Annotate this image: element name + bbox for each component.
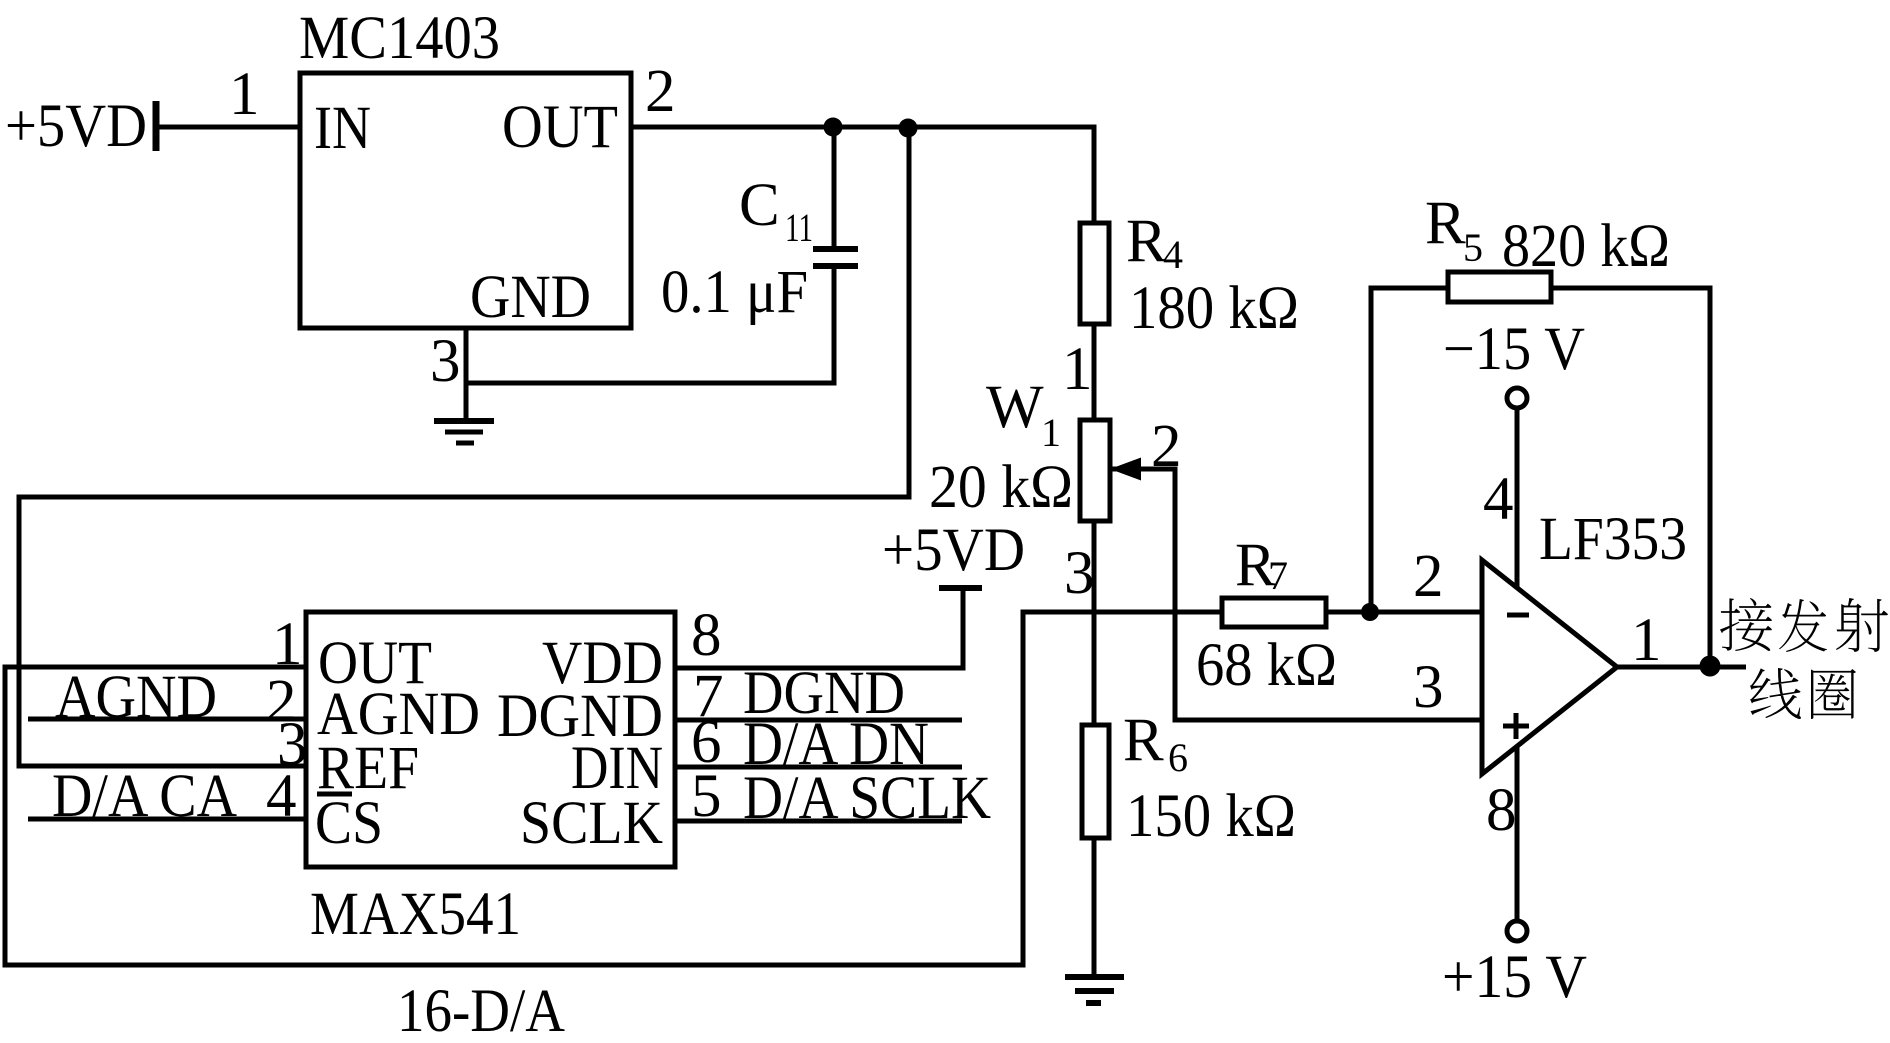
svg-text:MAX541: MAX541 — [310, 881, 521, 948]
svg-text:3: 3 — [1064, 540, 1095, 607]
svg-text:150 kΩ: 150 kΩ — [1126, 783, 1296, 850]
svg-text:11: 11 — [785, 205, 813, 250]
svg-text:5: 5 — [1463, 225, 1483, 270]
svg-text:20 kΩ: 20 kΩ — [929, 454, 1073, 521]
svg-text:2: 2 — [1151, 413, 1182, 480]
svg-text:8: 8 — [691, 602, 722, 669]
svg-text:MC1403: MC1403 — [299, 5, 500, 72]
svg-text:C: C — [739, 172, 780, 239]
svg-text:AGND: AGND — [55, 664, 217, 731]
svg-text:16-D/A: 16-D/A — [397, 978, 565, 1043]
svg-text:5: 5 — [691, 763, 722, 830]
svg-text:3: 3 — [1413, 654, 1444, 721]
svg-text:1: 1 — [229, 61, 260, 128]
svg-text:2: 2 — [645, 58, 676, 125]
svg-text:1: 1 — [1041, 410, 1061, 455]
svg-text:8: 8 — [1486, 777, 1517, 844]
svg-text:3: 3 — [430, 328, 461, 395]
svg-text:LF353: LF353 — [1539, 506, 1687, 573]
svg-text:4: 4 — [266, 763, 297, 830]
svg-text:+5VD: +5VD — [5, 93, 147, 160]
svg-text:1: 1 — [1631, 607, 1662, 674]
svg-text:R: R — [1126, 208, 1167, 275]
svg-text:0.1 μF: 0.1 μF — [661, 259, 808, 326]
svg-text:SCLK: SCLK — [520, 790, 663, 857]
svg-text:+5VD: +5VD — [882, 517, 1025, 584]
svg-text:D/A SCLK: D/A SCLK — [743, 765, 991, 832]
svg-text:OUT: OUT — [502, 94, 618, 161]
svg-text:CS: CS — [315, 790, 383, 857]
svg-text:R: R — [1123, 707, 1164, 774]
svg-text:D/A CA: D/A CA — [52, 763, 237, 830]
svg-text:68 kΩ: 68 kΩ — [1196, 632, 1337, 699]
svg-text:IN: IN — [314, 95, 371, 162]
svg-text:6: 6 — [1168, 735, 1188, 780]
svg-text:GND: GND — [470, 264, 591, 331]
svg-text:1: 1 — [1062, 336, 1093, 403]
svg-text:−15 V: −15 V — [1443, 316, 1585, 383]
svg-text:+15 V: +15 V — [1442, 944, 1587, 1011]
svg-text:7: 7 — [1268, 553, 1288, 598]
svg-text:4: 4 — [1163, 232, 1183, 277]
svg-text:R: R — [1425, 190, 1466, 257]
svg-text:180 kΩ: 180 kΩ — [1129, 275, 1299, 342]
svg-text:4: 4 — [1483, 466, 1514, 533]
svg-text:820 kΩ: 820 kΩ — [1502, 213, 1670, 280]
svg-text:W: W — [986, 374, 1044, 441]
svg-text:2: 2 — [1413, 543, 1444, 610]
